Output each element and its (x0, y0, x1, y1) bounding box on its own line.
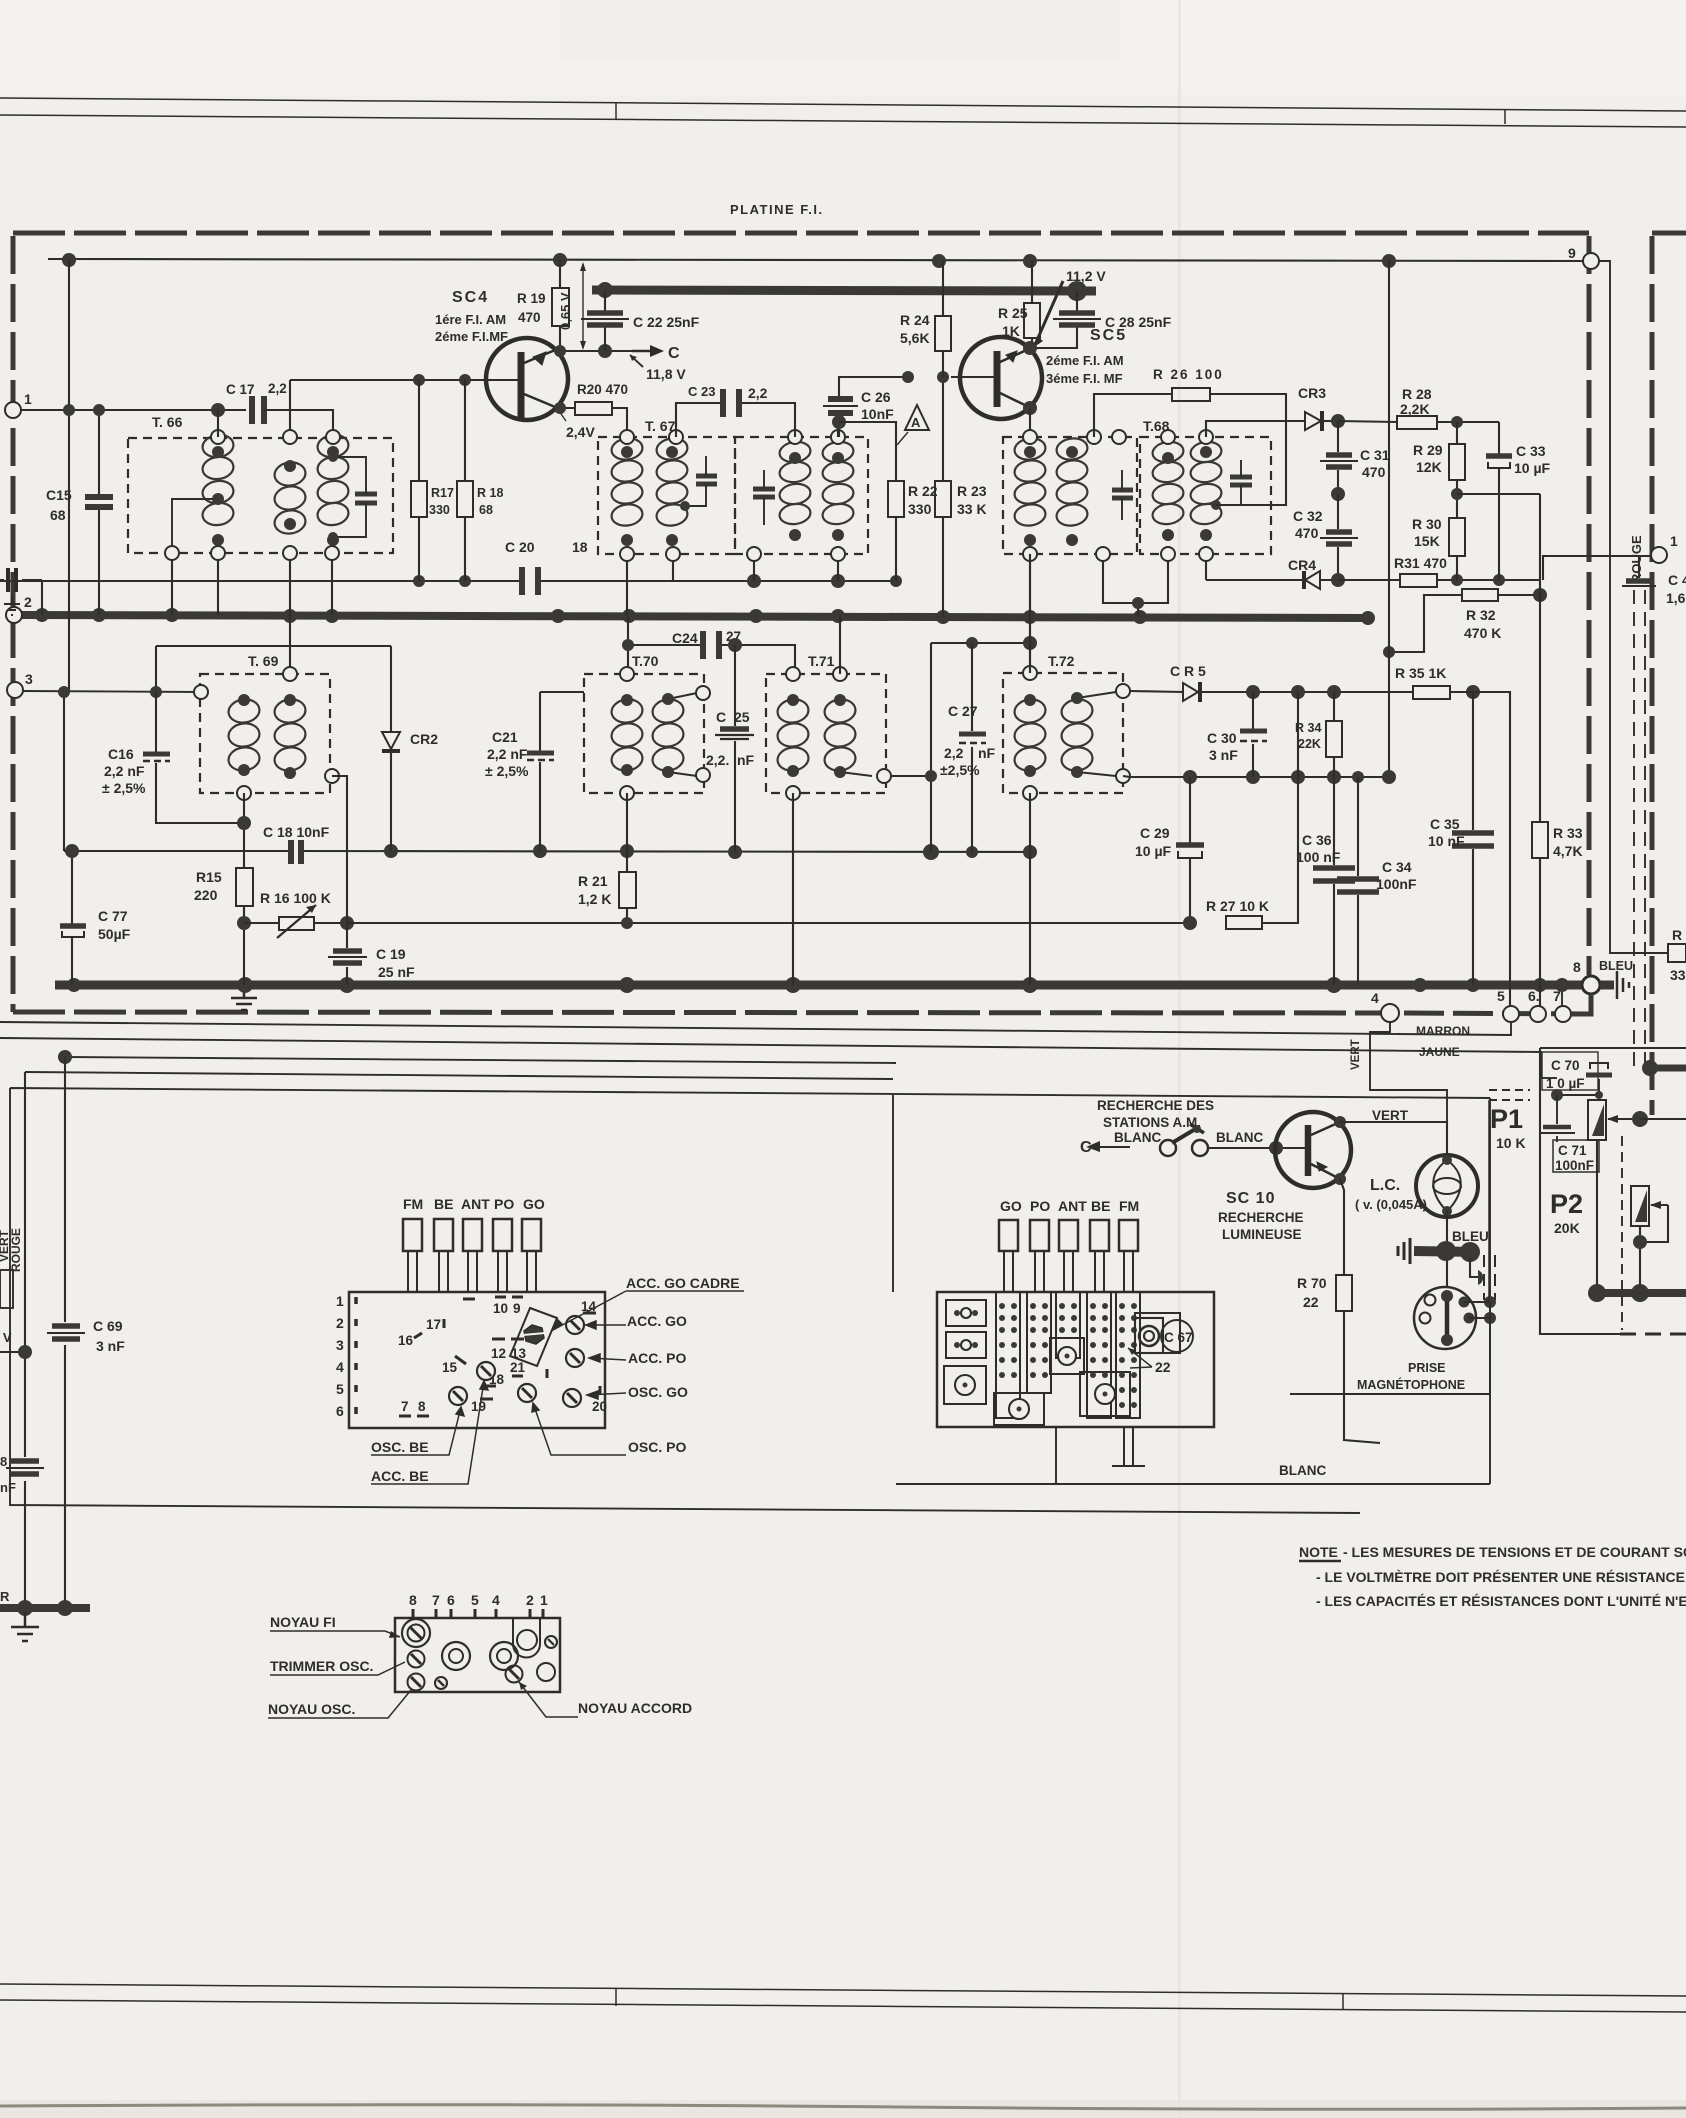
T.68 box1 tuning cap (1112, 490, 1133, 498)
AVC ground bus thick (55, 981, 1614, 990)
R31 resistor (1338, 579, 1400, 581)
terminal 1 (5, 402, 21, 418)
BLEU ground bar (1414, 1251, 1478, 1252)
T.66 coupling coil (273, 460, 307, 535)
T.67 coil dots (621, 446, 844, 546)
sheet frame bottom line 2 (0, 2000, 1686, 2012)
transformer T.67 boxes (598, 437, 868, 554)
lamp to BLEU bar (1446, 1211, 1448, 1288)
T.66 secondary coil (316, 433, 350, 527)
R25 resistor (1024, 303, 1040, 338)
wire y=643 (931, 643, 1030, 776)
CR3 diode (1206, 421, 1305, 437)
sheet frame top line 2 (0, 115, 1686, 127)
terminal 1 wire (21, 409, 246, 411)
P2 potentiometer (1631, 1186, 1649, 1226)
BLANC bottom wire (896, 1427, 1490, 1484)
left column C68 line (24, 1072, 26, 1608)
terminal 8 (1582, 976, 1600, 994)
svg-text:8: 8 (409, 1592, 417, 1608)
R26 feedback resistor (1094, 394, 1172, 437)
0,65V dimension arrow (582, 264, 584, 348)
C31 capacitor (1337, 421, 1339, 494)
C34 capacitor (1357, 777, 1359, 985)
vertical x=69 from top wire to AGC wire (68, 260, 70, 692)
rotor hex nut (524, 1325, 544, 1344)
R30 resistor (1449, 518, 1465, 556)
harness line 4 (25, 1072, 893, 1079)
bottom left thick ground bus (0, 1604, 90, 1612)
T.66 tap wire (172, 499, 218, 553)
C77 electrolytic (71, 851, 73, 985)
CR4 diode (1206, 579, 1303, 581)
R28 resistor (1338, 421, 1397, 422)
JAUNE wire into P box (1541, 1077, 1557, 1079)
R22 resistor (888, 481, 904, 517)
left edge feedthrough cap at y=580 (0, 579, 42, 581)
T.69 bottom node (243, 793, 245, 868)
svg-text:- LES MESURES DE TENSIONS: - LES MESURES DE TENSIONS ET DE COURANT … (1343, 1544, 1686, 1560)
keyboard switch 2 body (937, 1292, 1214, 1427)
wire to SC10 base (1208, 1147, 1276, 1149)
R24 resistor (935, 316, 951, 351)
base wire SC4 at y=380 (290, 380, 505, 437)
lamp L.C. (1416, 1155, 1478, 1217)
frame tick at x=1506 (1504, 109, 1506, 124)
oscillator block pin labels (409, 1592, 548, 1608)
R35 resistor (1413, 686, 1450, 699)
R18 resistor (457, 481, 473, 517)
small screw right (545, 1636, 557, 1648)
frame tick at x=617 (615, 102, 617, 120)
dots on bus A (35, 608, 1147, 624)
harness line marron (0, 1022, 1511, 1035)
svg-text:- LES CAPACITÉS ET RÉSISTAN: - LES CAPACITÉS ET RÉSISTANCES DONT L'UN… (1316, 1593, 1686, 1609)
center coil cans (442, 1642, 470, 1670)
svg-text:- LE VOLTMÈTRE DOIT PRÉSENT: - LE VOLTMÈTRE DOIT PRÉSENTER UNE RÉSIST… (1316, 1569, 1686, 1585)
terminal 3 (7, 682, 23, 698)
C36 capacitor (1333, 777, 1335, 985)
svg-text:NOYAU FI: NOYAU FI (270, 1614, 336, 1630)
AVC long vertical x=1389 (1388, 261, 1390, 777)
C24 coupling (628, 616, 795, 674)
R34 resistor (1326, 721, 1342, 757)
P1 dashed connection (1489, 1090, 1530, 1100)
CR5 diode (1130, 691, 1183, 692)
C20 AGC wire y=581 (0, 580, 896, 582)
svg-text:7: 7 (432, 1592, 440, 1608)
left column C69 (64, 1057, 66, 1608)
T.66 terminal circles (165, 430, 340, 560)
P1 potentiometer (1588, 1100, 1606, 1140)
transformer T.69 box (200, 674, 330, 793)
svg-text:2: 2 (526, 1592, 534, 1608)
frame bottom tick at x=1343 (1342, 1993, 1344, 2009)
B+ bus A (terminal 2 rail) thick (22, 615, 1368, 618)
contact strips (944, 1292, 1180, 1425)
junction dot terminal1 wire / T66 (211, 403, 225, 417)
inner contact marks (399, 1297, 600, 1416)
transformer T.68 boxes (1003, 437, 1271, 554)
terminal 9 (1583, 253, 1599, 269)
svg-text:TRIMMER OSC.: TRIMMER OSC. (270, 1658, 373, 1674)
C68 capacitor (11, 1461, 39, 1474)
T.68 coil dots (1024, 446, 1221, 546)
C70 (1542, 1052, 1598, 1090)
NOYAU OSC screw (408, 1674, 425, 1691)
C32 capacitor (1337, 494, 1339, 580)
prise magnetophone DIN socket (1414, 1287, 1476, 1349)
sheet frame bottom line 1 (0, 1984, 1686, 1996)
svg-text:1: 1 (540, 1592, 548, 1608)
svg-text:5: 5 (471, 1592, 479, 1608)
dashed vertical inside P box (1621, 1136, 1623, 1330)
T.67 risers (627, 422, 838, 616)
CR2 diode (390, 646, 392, 851)
keyboard switch 1 keys (403, 1219, 541, 1251)
right side callouts (371, 1275, 740, 1484)
C26 lower node wire to R22 (839, 422, 896, 481)
lower section outer box (10, 1088, 1490, 1513)
top horizontal wire (AGC line) (48, 259, 1584, 261)
T.66 coil junction dots (212, 446, 339, 546)
VERT wire from terminal 4 (1370, 1022, 1447, 1122)
FM stem below box (1112, 1427, 1145, 1466)
C22 capacitor (604, 290, 606, 351)
C33 electrolytic (1498, 422, 1500, 580)
row numbers 1-6 (336, 1293, 344, 1419)
ground symbol below bottom bus (11, 1612, 39, 1641)
screws block1 (449, 1316, 584, 1407)
thick link terminal8 to terminal7 (1571, 994, 1591, 1014)
small cut component box at left edge (0, 1270, 13, 1308)
T.68 bottom link wires (1030, 561, 1206, 673)
sheet frame top line 1 (0, 98, 1686, 111)
2,4V label (559, 411, 566, 421)
R33 resistor (1539, 494, 1541, 1006)
C29 electrolytic (1189, 777, 1191, 923)
R70 resistor (1340, 1179, 1380, 1443)
svg-text:NOYAU OSC.: NOYAU OSC. (268, 1701, 355, 1717)
C25 capacitor (734, 645, 736, 852)
TRIMMER OSC screw (408, 1651, 425, 1668)
thick audio bus at right (1594, 1289, 1686, 1297)
terminal 7 (1555, 1006, 1571, 1022)
C16 capacitor (156, 692, 244, 823)
C28 capacitor (1031, 291, 1077, 348)
T.67 terminal circles (620, 430, 845, 561)
collector wire SC4 with C arrow (560, 350, 632, 352)
detector wire y=851 (64, 851, 1030, 852)
PLATINE F.I. dashed board outline (13, 233, 1589, 1014)
junction dots on top wire (62, 253, 1396, 268)
second board terminal 1 (1651, 547, 1667, 563)
C71 (1556, 1095, 1558, 1142)
transformer T.70 box (584, 674, 704, 793)
C23 coupling (676, 403, 795, 437)
transformer T.66 box (128, 438, 393, 553)
ground symbol below bus at x=244 (231, 990, 257, 1010)
A measuring point triangle (905, 405, 929, 430)
NOYAU ACCORD screw (506, 1666, 523, 1683)
R16 variable resistor (244, 922, 279, 924)
keyboard switch 1 body (349, 1292, 605, 1428)
C27 capacitor (971, 643, 973, 852)
wire from left cap to bus A (41, 580, 43, 615)
T.69 coils (227, 697, 307, 772)
NOYAU FI screw (402, 1619, 430, 1647)
C20 capacitor (522, 567, 538, 595)
chassis ground right of terminal 8 (1600, 981, 1614, 989)
keyhole notch (513, 1618, 540, 1658)
R15 resistor (236, 868, 253, 906)
page bottom edge shadow (0, 2105, 1686, 2110)
terminal 4 (1381, 1004, 1399, 1022)
terminal 6 (1530, 1006, 1546, 1022)
T.69 secondary to R16 node (332, 776, 347, 923)
second board dashed outline at right edge (1652, 233, 1686, 1115)
R23 resistor (935, 481, 951, 517)
wire terminal1 to AVC divider (1543, 556, 1651, 580)
T.67 coils (610, 436, 855, 527)
AM line y=923 (347, 922, 1190, 924)
transistor SC10 (1275, 1112, 1351, 1188)
small screw (435, 1677, 447, 1689)
R19 resistor (552, 288, 569, 326)
T.66 tuning capacitor (355, 494, 377, 503)
keyboard switch 2 keys (999, 1220, 1138, 1251)
transformer T.71 box (766, 674, 886, 793)
svg-text:6: 6 (447, 1592, 455, 1608)
P1 P2 box (1540, 1048, 1620, 1334)
terminal 3 wire (23, 691, 201, 692)
svg-text:NOYAU ACCORD: NOYAU ACCORD (578, 1700, 692, 1716)
svg-text:NOTE: NOTE (1299, 1544, 1338, 1560)
frame bottom tick at x=616 (615, 1988, 617, 2006)
T.68 coils (1013, 436, 1223, 527)
far right thick stub (1648, 1065, 1686, 1072)
terminal 5 (1503, 1006, 1519, 1022)
svg-text:4: 4 (492, 1592, 500, 1608)
R21 resistor (626, 793, 628, 923)
R20 resistor (575, 402, 612, 415)
C26 capacitor (839, 377, 908, 437)
terminal 2 (6, 607, 22, 623)
T.68 box2 tuning cap (1230, 477, 1252, 485)
C19 capacitor (346, 923, 348, 985)
T.71 secondary to AVC wire (891, 776, 931, 852)
R32 resistor (1462, 589, 1498, 601)
11,8V label with arrow (630, 355, 643, 367)
detector lower wire y=777 (1123, 776, 1389, 777)
T.67 box1 tuning cap (696, 476, 717, 484)
C35 capacitor (1472, 692, 1474, 985)
T.67 box2 tuning cap (753, 489, 775, 497)
C30 capacitor (1252, 692, 1254, 777)
rotor parallelogram (510, 1308, 557, 1366)
R17 resistor (411, 481, 427, 517)
contact dots (954, 1303, 1137, 1408)
harness line jaune (0, 1038, 1541, 1078)
oscillator block body (395, 1618, 560, 1692)
wire above T.69 (64, 646, 391, 851)
T.68 terminal circles (1023, 430, 1213, 561)
R29 resistor (1449, 444, 1465, 480)
wire terminal 9 to right edge resistor column (1599, 261, 1668, 953)
VERT collector wire (1340, 1122, 1447, 1155)
supply bus B 11,2V thick (592, 290, 1096, 291)
wire R29/R30 node to AVC vertical (1457, 493, 1540, 495)
harness line 3 (65, 1057, 896, 1063)
C67 component (1135, 1318, 1163, 1353)
dots on AVC bus (67, 977, 1569, 993)
C21 capacitor (540, 692, 584, 851)
C18 capacitor (291, 840, 301, 864)
transformer T.72 box (1003, 673, 1123, 793)
dashed feed lines below C40 (1634, 590, 1645, 1066)
plain hole (537, 1663, 555, 1681)
transistor SC5 (951, 337, 1042, 419)
R27 resistor (1226, 916, 1262, 929)
C15 capacitor (98, 410, 100, 615)
transistor SC4 (486, 338, 568, 420)
C40 feedthrough on second board (1638, 556, 1640, 578)
T.66 primary coil (201, 433, 235, 527)
T.66 risers to bus (69, 260, 332, 692)
AM search switch contacts (1160, 1140, 1176, 1156)
far right resistor R36 (1668, 944, 1686, 962)
C17 capacitor (252, 396, 264, 424)
